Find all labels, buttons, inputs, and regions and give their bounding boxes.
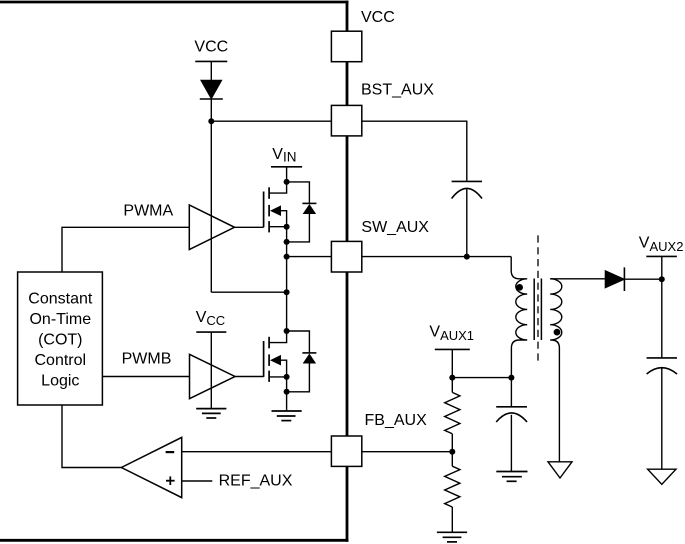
node VAUX2 xyxy=(659,276,665,282)
wire BST rail return to SW net xyxy=(211,291,286,293)
wire SW node down to Q2 drain xyxy=(286,257,288,331)
svg-text:VAUX1: VAUX1 xyxy=(429,324,474,343)
wire Q2 body diode upper branch xyxy=(287,331,310,353)
pin BST_AUX xyxy=(331,105,361,135)
wire C2 top lead xyxy=(510,378,512,407)
transistor Q1 high-side MOSFET xyxy=(264,187,281,232)
pin FB_AUX xyxy=(331,436,361,466)
diode D2 output rectifier xyxy=(605,267,624,291)
wire Q1 source lead xyxy=(269,226,287,228)
svg-text:Control: Control xyxy=(35,352,87,369)
wire VCC rail through PWMB driver to ground xyxy=(210,332,212,409)
wire R1 top lead xyxy=(451,378,453,393)
wire Q2 drain lead xyxy=(269,331,287,343)
wire REF_AUX to comparator noninverting input xyxy=(182,480,213,482)
node FB divider xyxy=(449,449,455,455)
wire Q2 body diode lower branch xyxy=(287,363,310,392)
svg-text:(COT): (COT) xyxy=(38,331,82,348)
wire C1 bottom to SW net xyxy=(466,189,468,257)
wire C3 bottom lead to earth xyxy=(661,368,663,469)
svg-text:VAUX2: VAUX2 xyxy=(639,235,684,254)
IC boundary bottom border xyxy=(0,539,348,542)
diode D1 xyxy=(200,80,223,99)
isolation barrier dashed line xyxy=(537,235,539,364)
svg-text:PWMB: PWMB xyxy=(122,350,172,367)
wire Q1 body diode lower branch xyxy=(287,214,310,242)
node BST junction xyxy=(208,118,214,124)
svg-text:VCC: VCC xyxy=(196,309,225,328)
power terminal VCC bar xyxy=(195,60,227,62)
wire Q2 body to source xyxy=(281,360,287,377)
IC boundary top border xyxy=(0,1,348,4)
node Q1 body diode xyxy=(284,239,290,245)
wire COT logic to PWMB driver input xyxy=(103,376,190,378)
resistor R2 xyxy=(445,466,460,507)
wire Q2 source node down xyxy=(286,377,288,392)
pin VCC xyxy=(331,31,361,62)
diode Q1 body diode xyxy=(302,203,316,213)
svg-text:VCC: VCC xyxy=(194,38,228,55)
wire BST_AUX pin to bootstrap cap C1 xyxy=(362,121,467,181)
svg-text:Constant: Constant xyxy=(28,290,93,307)
node Q2 source xyxy=(284,374,290,380)
node Q1 drain xyxy=(284,179,290,185)
wire PWMA output to Q1 gate xyxy=(235,226,264,228)
power terminal VAUX2 bar xyxy=(646,255,677,257)
wire comparator output to COT logic xyxy=(62,405,121,468)
wire SW_AUX pin to transformer primary top xyxy=(362,256,511,258)
svg-text:Logic: Logic xyxy=(41,372,79,389)
transistor Q2 low-side MOSFET xyxy=(264,337,281,382)
label COT control logic text xyxy=(28,290,93,389)
wire R1 bottom lead to FB node xyxy=(451,434,453,452)
svg-text:SW_AUX: SW_AUX xyxy=(361,219,429,236)
transformer T1 core xyxy=(534,279,541,341)
wire Q1 body to source xyxy=(281,211,287,227)
wire Q2 source to ground xyxy=(286,392,288,411)
wire D2 cathode to VAUX2 node xyxy=(624,278,661,280)
wire BST rail down through PWMA driver xyxy=(210,121,212,292)
minus sign on inverting input xyxy=(166,451,175,453)
wire transformer secondary top to diode D2 xyxy=(550,278,605,280)
wire VAUX1 node to cap node xyxy=(452,377,511,379)
transformer T1 secondary winding xyxy=(550,279,562,462)
buffer PWMA driver xyxy=(189,205,234,250)
ground under C2 xyxy=(496,472,527,482)
svg-text:On-Time: On-Time xyxy=(29,311,91,328)
wire VIN terminal to Q1 drain node xyxy=(286,167,288,182)
node bootstrap cap on SW xyxy=(464,254,470,260)
wire Q1 source node down to SW node xyxy=(286,227,288,257)
ground under R2 xyxy=(437,532,467,542)
wire Q1 body diode upper branch xyxy=(287,182,310,204)
op-amp U1 error comparator xyxy=(121,437,181,497)
capacitor C2 on VAUX1 xyxy=(496,407,527,422)
earth ground under secondary xyxy=(548,462,572,478)
buffer PWMB driver xyxy=(190,354,236,398)
svg-text:REF_AUX: REF_AUX xyxy=(219,472,293,489)
wire BST node to BST_AUX pin xyxy=(211,120,331,122)
wire SW node to SW_AUX pin xyxy=(287,256,332,258)
wire PWMB output to Q2 gate xyxy=(235,376,264,378)
svg-text:FB_AUX: FB_AUX xyxy=(365,412,428,429)
resistor R1 xyxy=(445,392,460,433)
wire R2 top lead xyxy=(451,452,453,467)
transformer T1 primary winding xyxy=(511,257,527,378)
node VAUX1 xyxy=(449,375,455,381)
capacitor C1 bootstrap xyxy=(452,181,482,198)
wire VAUX1 terminal down xyxy=(451,349,453,377)
transformer T1 secondary polarity dot xyxy=(554,329,561,336)
pin SW_AUX xyxy=(331,241,361,272)
svg-text:BST_AUX: BST_AUX xyxy=(361,82,434,99)
plus sign on noninverting input xyxy=(166,476,175,485)
node BST rail return xyxy=(284,289,290,295)
diode Q2 body diode xyxy=(302,353,316,363)
node Q2 drain xyxy=(284,328,290,334)
wire R2 bottom lead to ground xyxy=(451,507,453,532)
ground under Q2 xyxy=(272,411,302,421)
wire Q2 source lead xyxy=(269,376,287,378)
capacitor C3 output xyxy=(647,358,677,374)
wire VCC terminal to diode D1 anode xyxy=(210,61,212,80)
node Q1 source xyxy=(284,224,290,230)
power terminal VIN bar xyxy=(271,166,302,168)
IC boundary right border xyxy=(346,1,349,542)
svg-text:VCC: VCC xyxy=(361,9,395,26)
node SW branch xyxy=(284,254,290,260)
svg-text:PWMA: PWMA xyxy=(123,203,173,220)
block COT control logic box xyxy=(18,272,103,405)
power terminal VAUX1 bar xyxy=(435,348,470,350)
wire D1 cathode to BST node xyxy=(210,99,212,121)
wire VAUX2 terminal down to cap C3 xyxy=(661,256,663,358)
node Q2 body diode xyxy=(284,389,290,395)
earth ground under C3 xyxy=(648,469,676,484)
ground under PWMB driver xyxy=(196,409,226,418)
svg-text:VIN: VIN xyxy=(272,146,296,165)
wire COT logic to PWMA driver input xyxy=(62,227,189,272)
wire C2 bottom lead to ground xyxy=(510,415,512,472)
wire Q1 drain lead xyxy=(269,182,287,193)
wire FB node to comparator inverting input xyxy=(182,451,453,453)
power terminal VCC bar for PWMB driver xyxy=(196,331,226,333)
node C2 transformer xyxy=(508,375,514,381)
transformer T1 primary polarity dot xyxy=(516,284,523,291)
